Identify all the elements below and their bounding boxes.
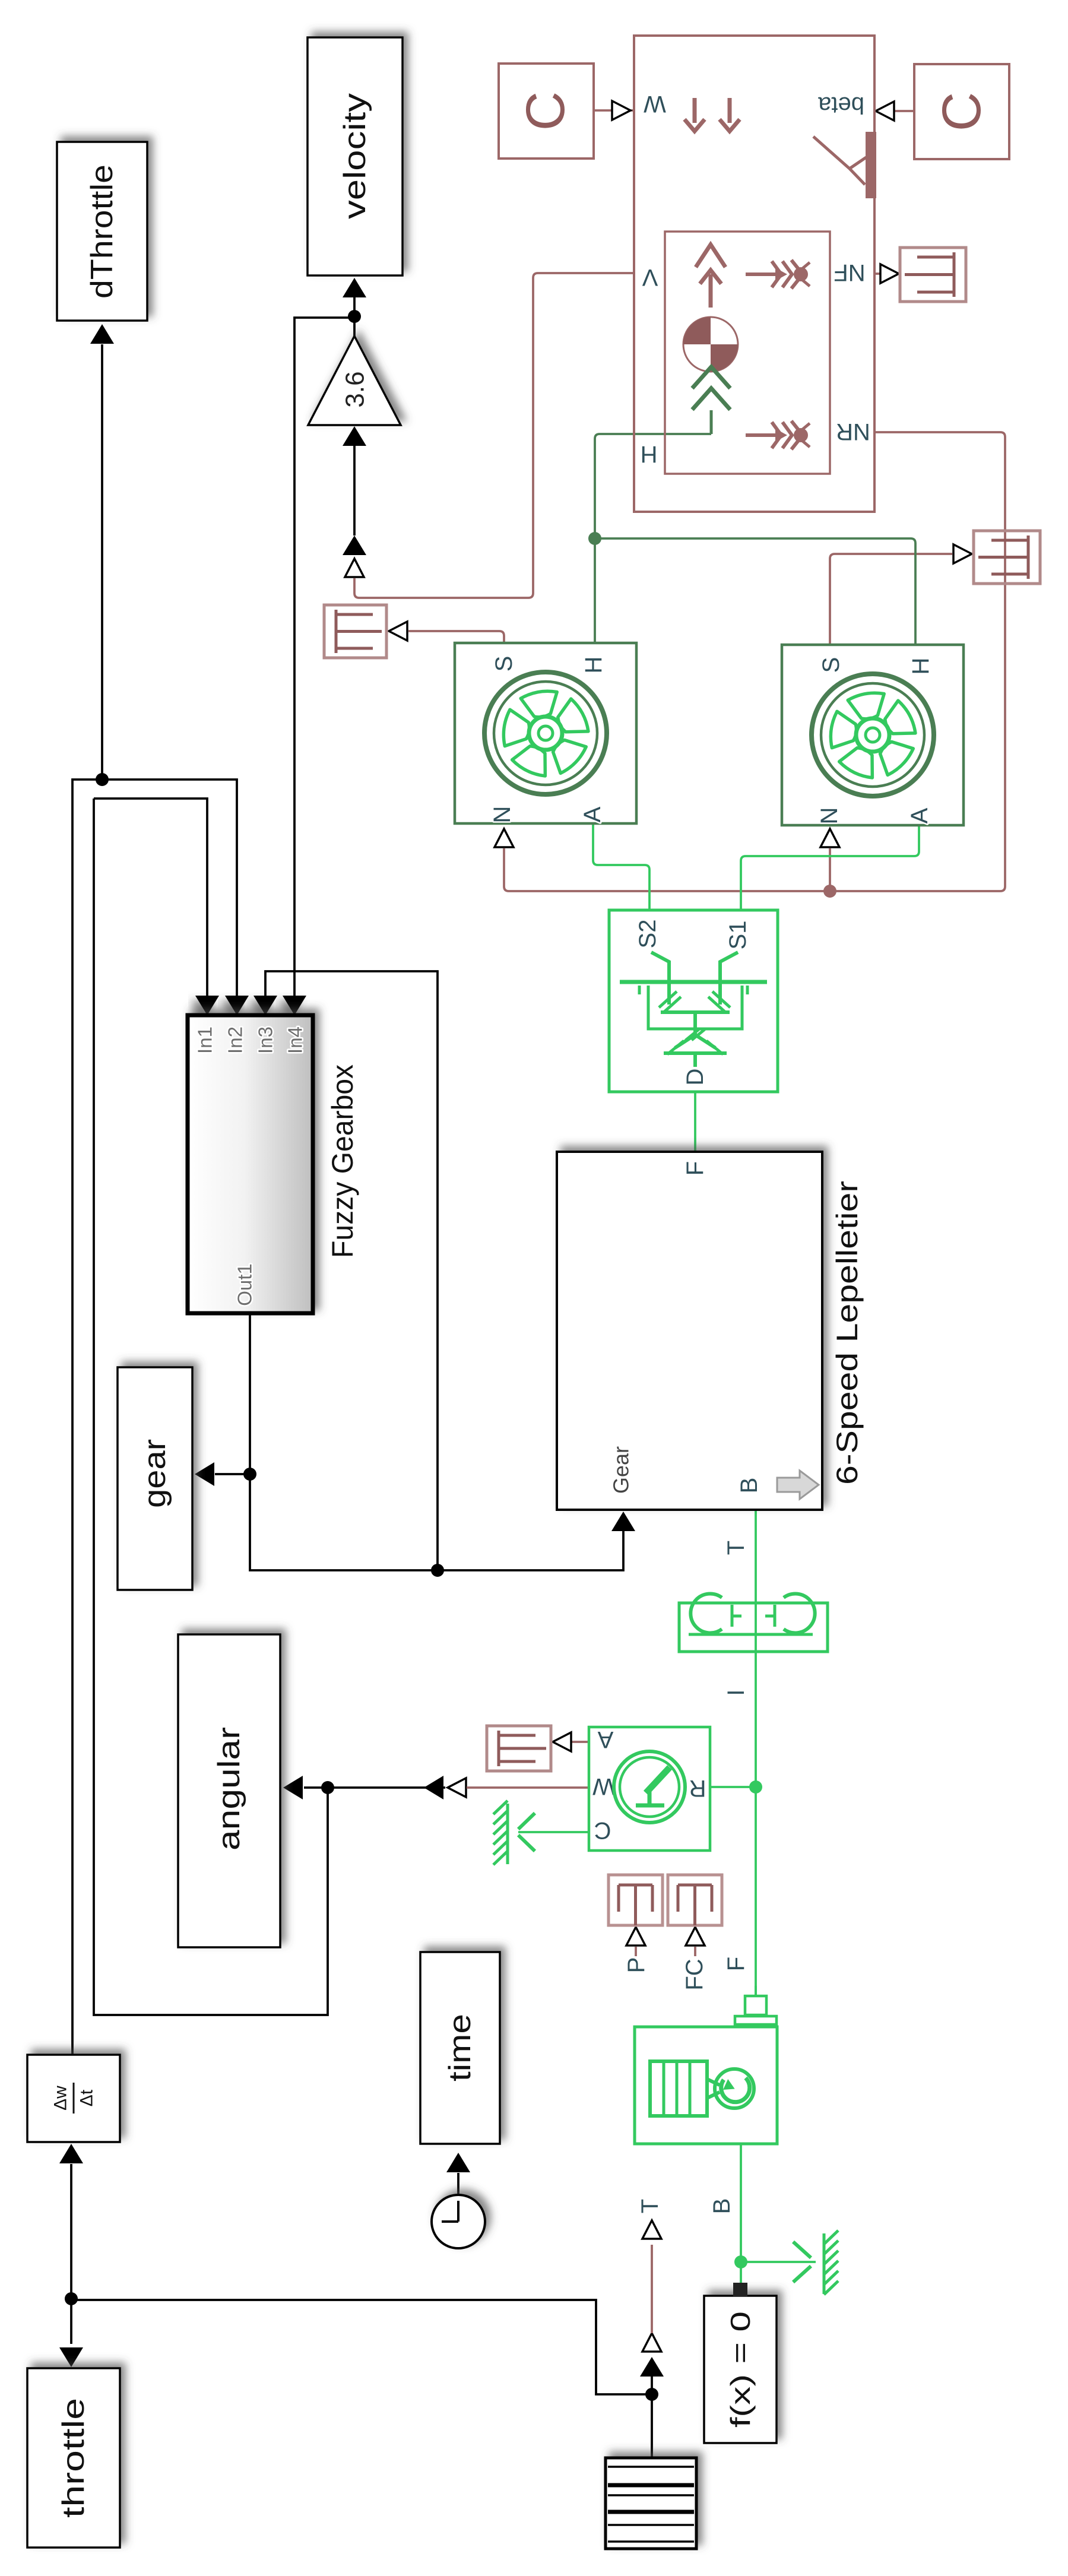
- svg-text:S1: S1: [725, 921, 751, 950]
- svg-text:Δt: Δt: [77, 2089, 97, 2106]
- svg-text:N: N: [489, 806, 515, 823]
- svg-text:velocity: velocity: [338, 93, 372, 219]
- svg-text:In2: In2: [224, 1026, 246, 1054]
- svg-text:Δw: Δw: [51, 2086, 71, 2111]
- svg-text:NF: NF: [834, 259, 865, 286]
- svg-text:beta: beta: [817, 92, 864, 118]
- svg-text:C: C: [515, 91, 576, 131]
- svg-text:R: R: [689, 1775, 706, 1801]
- svg-text:H: H: [908, 658, 934, 675]
- svg-text:In1: In1: [194, 1026, 216, 1054]
- svg-text:B: B: [709, 2198, 735, 2214]
- svg-text:N: N: [816, 807, 842, 825]
- svg-text:NR: NR: [836, 419, 870, 445]
- svg-text:B: B: [736, 1478, 762, 1494]
- svg-text:gear: gear: [138, 1439, 172, 1508]
- svg-text:A: A: [907, 807, 933, 823]
- svg-text:In3: In3: [255, 1026, 277, 1054]
- svg-text:P: P: [623, 1957, 649, 1973]
- svg-text:S2: S2: [635, 920, 661, 949]
- svg-text:A: A: [597, 1726, 613, 1753]
- svg-text:C: C: [931, 92, 992, 131]
- svg-text:I: I: [723, 1689, 749, 1696]
- svg-text:F: F: [723, 1957, 749, 1971]
- svg-text:Out1: Out1: [234, 1263, 256, 1306]
- svg-text:A: A: [579, 806, 606, 822]
- svg-text:V: V: [642, 264, 658, 290]
- svg-text:H: H: [581, 657, 607, 674]
- svg-text:f(x) = 0: f(x) = 0: [725, 2311, 756, 2428]
- svg-text:FC: FC: [682, 1959, 708, 1990]
- svg-text:6-Speed Lepelletier: 6-Speed Lepelletier: [831, 1181, 864, 1485]
- svg-text:Gear: Gear: [609, 1446, 633, 1494]
- svg-text:W: W: [592, 1773, 615, 1799]
- svg-text:In4: In4: [284, 1026, 306, 1054]
- svg-text:dThrottle: dThrottle: [85, 164, 119, 299]
- svg-text:Fuzzy Gearbox: Fuzzy Gearbox: [326, 1064, 359, 1258]
- svg-text:F: F: [682, 1161, 708, 1175]
- svg-text:H: H: [641, 441, 658, 467]
- svg-text:C: C: [594, 1817, 611, 1843]
- svg-text:3.6: 3.6: [341, 371, 370, 407]
- svg-text:angular: angular: [212, 1727, 246, 1851]
- svg-text:T: T: [723, 1541, 749, 1555]
- svg-text:W: W: [644, 91, 666, 117]
- svg-text:S: S: [818, 657, 844, 673]
- svg-text:T: T: [637, 2199, 663, 2213]
- svg-text:throttle: throttle: [56, 2398, 91, 2518]
- svg-text:S: S: [491, 656, 517, 672]
- svg-text:time: time: [443, 2014, 477, 2081]
- svg-text:D: D: [682, 1069, 708, 1086]
